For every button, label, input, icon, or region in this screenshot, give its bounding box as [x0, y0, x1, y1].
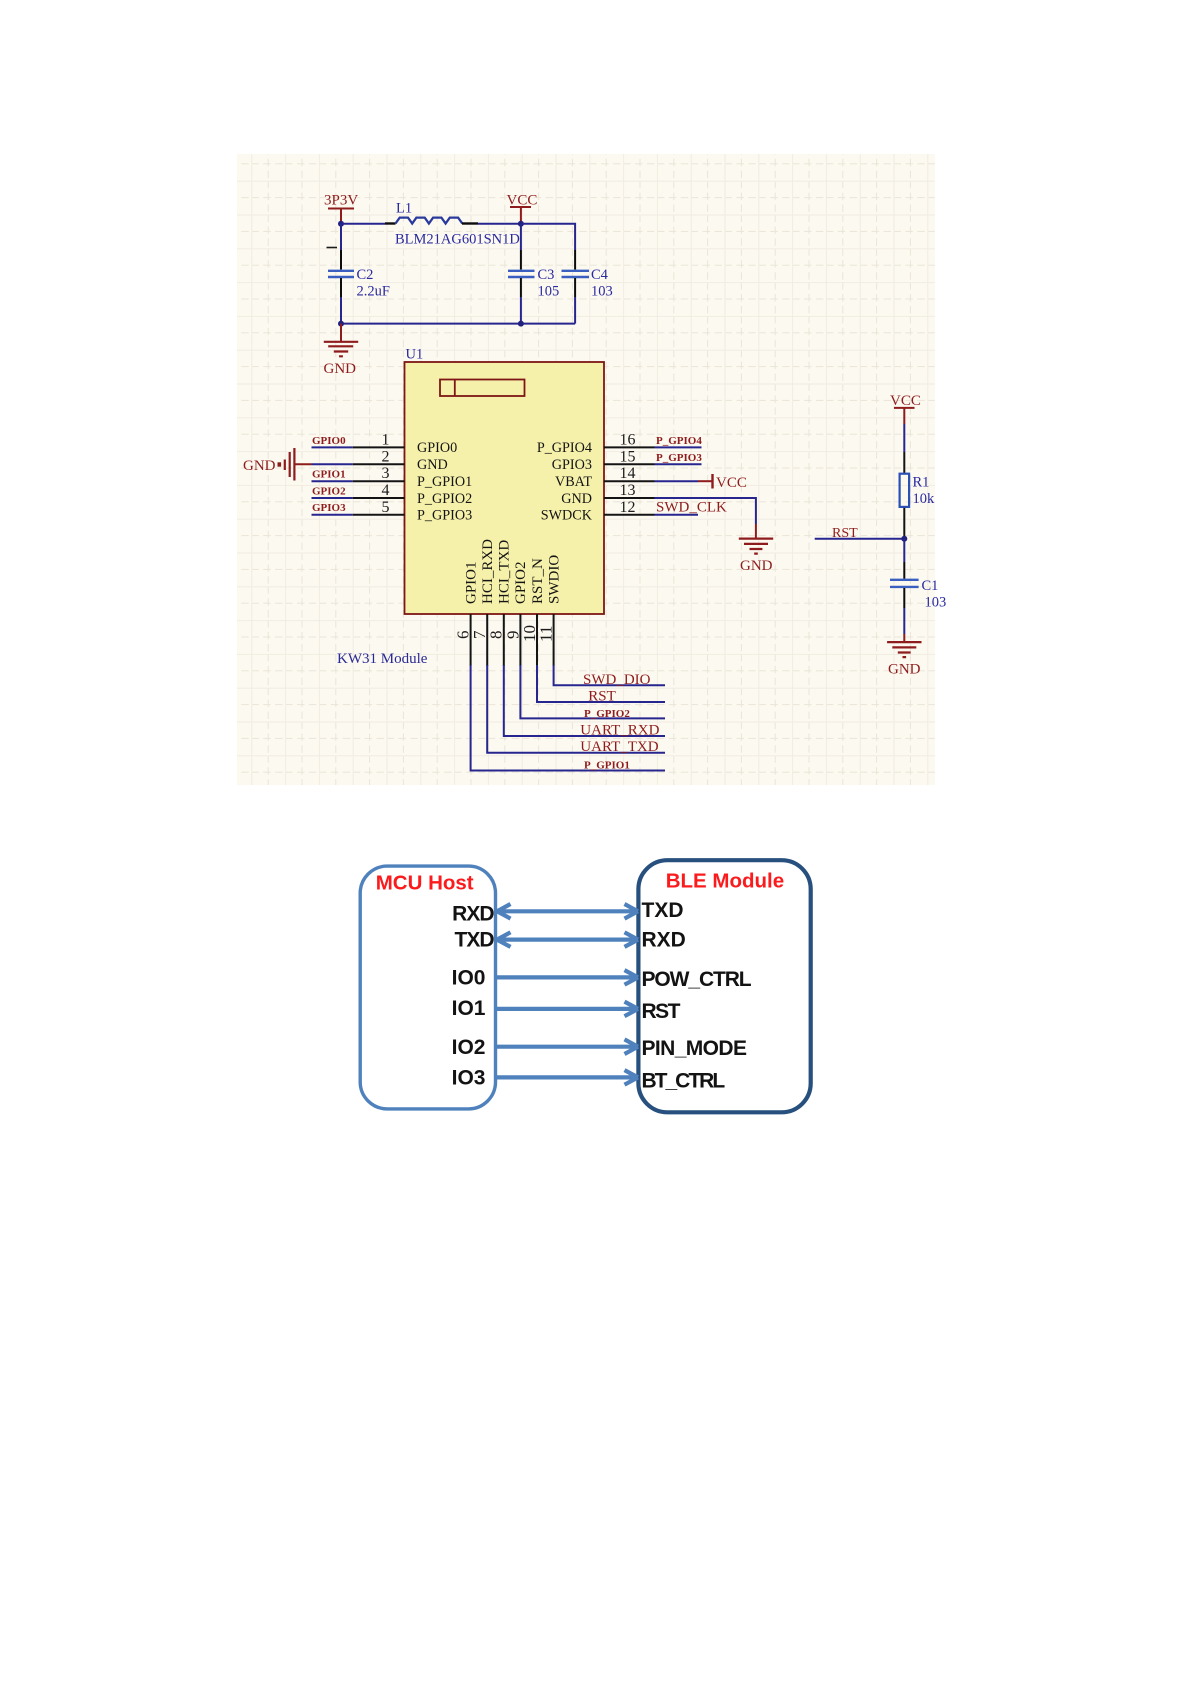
node junction at 3P3V: [338, 221, 344, 227]
block BLE Module: [638, 860, 810, 1112]
svg-text:IO3: IO3: [452, 1067, 486, 1090]
svg-text:3: 3: [382, 465, 390, 482]
resistor R1 10k: [900, 474, 935, 507]
wire L1 to VCC node: [462, 222, 478, 224]
wire GPIO2 to P_GPIO2: [520, 665, 665, 718]
svg-text:P_GPIO4: P_GPIO4: [656, 435, 702, 447]
svg-text:GPIO1: GPIO1: [312, 469, 346, 481]
wire pin13 GND: [655, 498, 756, 524]
arrow IO1 to RST: [497, 1002, 638, 1017]
pin 15: [552, 448, 655, 473]
arrow IO0 to POW_CTRL: [497, 970, 638, 985]
arrow IO2 to PIN_MODE: [497, 1039, 638, 1054]
wire C1 to ground: [903, 588, 905, 608]
node junction RST: [901, 536, 907, 542]
svg-text:R1: R1: [913, 475, 930, 491]
svg-text:P_GPIO3: P_GPIO3: [656, 452, 702, 464]
wire GPIO1: [312, 480, 353, 482]
svg-text:SWD_DIO: SWD_DIO: [583, 672, 651, 688]
svg-text:HCI_RXD: HCI_RXD: [480, 539, 496, 604]
pin 8: [487, 540, 513, 666]
wire R1 to RST node: [903, 508, 905, 539]
svg-text:BT_CTRL: BT_CTRL: [642, 1070, 726, 1093]
wire P_GPIO3: [655, 463, 702, 465]
svg-text:KW31 Module: KW31 Module: [337, 651, 428, 667]
svg-text:VBAT: VBAT: [555, 474, 592, 490]
pin 14: [555, 465, 655, 490]
svg-text:GPIO2: GPIO2: [312, 485, 346, 497]
svg-text:10k: 10k: [913, 491, 936, 507]
svg-text:GPIO1: GPIO1: [463, 561, 479, 604]
pin 13: [561, 482, 654, 507]
svg-text:GPIO3: GPIO3: [312, 502, 346, 514]
svg-text:C3: C3: [538, 267, 555, 283]
pin 11: [537, 555, 563, 666]
svg-text:GND: GND: [740, 558, 773, 574]
node junction VCC/C3: [518, 221, 524, 227]
svg-text:TXD: TXD: [455, 929, 495, 952]
svg-text:GPIO0: GPIO0: [417, 440, 457, 456]
svg-text:BLM21AG601SN1D: BLM21AG601SN1D: [395, 232, 520, 248]
svg-text:UART_TXD: UART_TXD: [580, 739, 658, 755]
arrow TXD-RXD double: [497, 932, 638, 947]
svg-text:IO0: IO0: [452, 967, 486, 990]
svg-text:U1: U1: [406, 347, 424, 363]
svg-text:P_GPIO2: P_GPIO2: [584, 708, 630, 720]
svg-text:IO1: IO1: [452, 997, 486, 1020]
inductor L1: [395, 201, 520, 248]
svg-text:SWD_CLK: SWD_CLK: [656, 500, 727, 516]
svg-text:VCC: VCC: [890, 393, 921, 409]
svg-text:SWDCK: SWDCK: [541, 508, 593, 524]
pin 3: [353, 465, 472, 490]
svg-text:GND: GND: [243, 458, 276, 474]
wire GPIO0: [312, 446, 353, 448]
svg-text:105: 105: [538, 284, 560, 300]
pin 1: [353, 431, 458, 456]
pin 5: [353, 499, 472, 524]
wire GPIO2: [312, 497, 353, 499]
capacitor C1: [890, 578, 946, 611]
svg-text:14: 14: [620, 465, 636, 482]
capacitor C2: [327, 224, 390, 324]
power symbol VCC: [507, 193, 538, 224]
wire SWDIO to SWD_DIO: [554, 665, 665, 685]
wire HCI_TXD to UART_RXD: [504, 665, 665, 736]
svg-text:RXD: RXD: [642, 928, 686, 951]
svg-text:GND: GND: [561, 491, 592, 507]
svg-text:P_GPIO3: P_GPIO3: [417, 508, 472, 524]
svg-text:103: 103: [591, 284, 613, 300]
svg-text:PIN_MODE: PIN_MODE: [642, 1037, 747, 1060]
svg-text:2.2uF: 2.2uF: [357, 284, 390, 300]
ground below C1: [887, 634, 921, 678]
pin 7: [470, 539, 496, 666]
schematic sheet background: [237, 154, 935, 785]
pin 10: [520, 558, 546, 666]
svg-text:GND: GND: [324, 361, 357, 377]
arrow RXD-TXD double: [497, 904, 638, 919]
svg-text:3P3V: 3P3V: [324, 193, 358, 209]
wire RST_N to RST: [537, 665, 665, 702]
power symbol VCC at R1: [890, 393, 921, 424]
wire GPIO3: [312, 514, 353, 516]
ground at pin 13: [739, 524, 773, 574]
wire bottom rail: [341, 323, 575, 325]
svg-text:15: 15: [620, 448, 636, 465]
ground sideways at pin 2: [243, 448, 312, 481]
svg-text:UART_RXD: UART_RXD: [580, 723, 659, 739]
svg-text:POW_CTRL: POW_CTRL: [642, 968, 752, 991]
svg-text:C2: C2: [357, 267, 374, 283]
svg-text:GND: GND: [888, 662, 921, 678]
svg-text:P_GPIO4: P_GPIO4: [537, 440, 592, 456]
svg-text:RST_N: RST_N: [530, 558, 546, 604]
svg-text:P_GPIO2: P_GPIO2: [417, 491, 472, 507]
wire GND to pin2: [312, 463, 353, 465]
svg-text:RXD: RXD: [452, 903, 494, 926]
svg-text:IO2: IO2: [452, 1036, 486, 1059]
node junction C3 bottom: [518, 321, 524, 327]
pin 6: [454, 561, 480, 666]
ground below C2: [324, 324, 359, 377]
svg-text:TXD: TXD: [642, 899, 684, 922]
pin 9: [503, 561, 529, 666]
svg-text:P_GPIO1: P_GPIO1: [584, 759, 630, 771]
wire VBAT to VCC: [655, 480, 699, 482]
svg-text:GPIO0: GPIO0: [312, 435, 346, 447]
power symbol VCC at VBAT: [713, 474, 747, 491]
capacitor C3: [508, 224, 559, 324]
svg-text:SWDIO: SWDIO: [546, 555, 562, 604]
pin 12: [541, 499, 655, 524]
svg-text:2: 2: [382, 448, 390, 465]
svg-text:RST: RST: [642, 1000, 681, 1023]
svg-text:16: 16: [620, 431, 636, 448]
svg-text:BLE Module: BLE Module: [666, 870, 784, 893]
svg-text:4: 4: [382, 482, 390, 499]
svg-text:HCI_TXD: HCI_TXD: [497, 540, 513, 604]
svg-text:11: 11: [537, 626, 556, 642]
svg-text:GND: GND: [417, 457, 448, 473]
wire GPIO1 to P_GPIO1: [471, 665, 665, 771]
svg-text:C4: C4: [591, 267, 609, 283]
svg-text:RST: RST: [588, 689, 616, 705]
pin 4: [353, 482, 472, 507]
svg-text:1: 1: [382, 431, 390, 448]
wire RST node to C1: [903, 539, 905, 562]
svg-text:C1: C1: [922, 578, 939, 594]
svg-text:GPIO2: GPIO2: [513, 561, 529, 604]
node junction C2 bottom: [338, 321, 344, 327]
block MCU Host: [360, 866, 495, 1109]
svg-text:5: 5: [382, 499, 390, 516]
pin 2: [353, 448, 448, 473]
power symbol 3P3V: [324, 193, 358, 224]
svg-text:L1: L1: [396, 201, 412, 217]
arrow IO3 to BT_CTRL: [497, 1070, 638, 1085]
wire RST: [815, 538, 905, 540]
IC U1 body: [405, 362, 605, 614]
svg-text:P_GPIO1: P_GPIO1: [417, 474, 472, 490]
wire VCC node to C4 branch: [521, 224, 575, 250]
svg-text:103: 103: [925, 595, 947, 611]
wire 3P3V to L1: [341, 223, 385, 225]
wire SWD_CLK: [655, 514, 699, 516]
wire HCI_RXD to UART_TXD: [487, 665, 665, 753]
svg-text:VCC: VCC: [716, 475, 747, 491]
svg-text:13: 13: [620, 482, 636, 499]
svg-text:12: 12: [620, 499, 636, 516]
pin 16: [537, 431, 655, 456]
wire VCC to R1: [903, 424, 905, 452]
svg-text:GPIO3: GPIO3: [552, 457, 592, 473]
svg-text:MCU Host: MCU Host: [376, 872, 474, 895]
capacitor C4: [562, 267, 613, 324]
wire P_GPIO4: [655, 446, 702, 448]
